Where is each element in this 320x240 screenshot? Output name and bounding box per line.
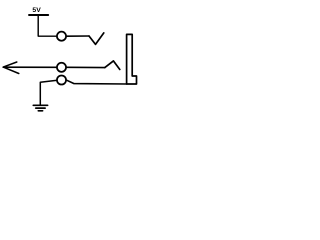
wire from switch pin — [67, 35, 89, 37]
pin circle tip — [57, 63, 66, 72]
ground symbol bar 3 — [38, 110, 42, 112]
wire sleeve pin to jack — [67, 80, 127, 84]
wire sleeve pin to ground — [40, 80, 56, 104]
ground symbol bar 1 — [33, 104, 47, 106]
switch contact check — [89, 33, 104, 45]
arrow signal out — [3, 66, 56, 68]
wire 5V to switch pin — [38, 15, 56, 36]
pin circle sleeve — [57, 75, 66, 84]
svg-text:5V: 5V — [32, 7, 41, 14]
pin circle switch — [57, 32, 66, 41]
ground symbol bar 2 — [36, 107, 45, 109]
jack sleeve outline — [127, 34, 137, 84]
wire from tip pin — [67, 66, 105, 68]
arrow head — [3, 62, 19, 74]
power flag bar — [29, 14, 48, 16]
tip contact bend — [105, 61, 120, 70]
